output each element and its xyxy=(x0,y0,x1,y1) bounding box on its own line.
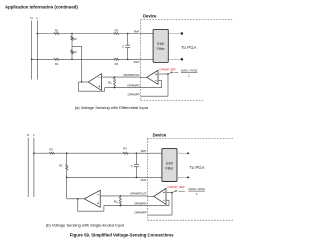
svg-text:(a) Voltage Sensing with Diffe: (a) Voltage Sensing with Differential In… xyxy=(75,105,149,110)
svg-text:L: L xyxy=(36,16,38,20)
svg-text:(b) Voltage Sensing with Singl: (b) Voltage Sensing with Single-Ended In… xyxy=(46,223,125,228)
svg-text:R2: R2 xyxy=(73,50,77,54)
svg-text:N: N xyxy=(27,133,29,137)
svg-text:R1: R1 xyxy=(49,148,53,152)
svg-text:R2: R2 xyxy=(73,37,77,41)
svg-text:L: L xyxy=(33,133,35,137)
svg-text:C: C xyxy=(131,164,133,168)
svg-text:(AVDD + AVSS): (AVDD + AVSS) xyxy=(181,69,197,73)
svg-text:R3: R3 xyxy=(123,147,127,151)
svg-text:R1: R1 xyxy=(55,29,59,33)
svg-text:OPAMP_REF: OPAMP_REF xyxy=(167,185,184,189)
svg-text:Application Information (conti: Application Information (continued) xyxy=(5,4,78,9)
svg-text:RxN: RxN xyxy=(141,178,147,182)
svg-text:OPAMPOUT: OPAMPOUT xyxy=(130,192,147,196)
svg-text:N: N xyxy=(31,16,33,20)
svg-text:RxP: RxP xyxy=(134,29,140,33)
svg-text:2: 2 xyxy=(188,74,190,78)
svg-text:B: B xyxy=(116,202,118,204)
svg-text:To PGA: To PGA xyxy=(181,45,196,50)
svg-text:R2: R2 xyxy=(59,163,63,167)
svg-text:R3: R3 xyxy=(115,29,119,33)
svg-text:Filter: Filter xyxy=(165,166,174,170)
svg-text:Device: Device xyxy=(143,14,157,19)
svg-text:OPAMPN: OPAMPN xyxy=(134,202,146,206)
svg-text:C: C xyxy=(122,45,124,49)
svg-text:RxP: RxP xyxy=(141,149,147,153)
svg-text:OPAMPOUT: OPAMPOUT xyxy=(123,73,140,77)
svg-text:B: B xyxy=(110,83,112,85)
svg-text:OPAMPP: OPAMPP xyxy=(127,93,139,97)
svg-text:R1: R1 xyxy=(55,62,59,66)
svg-text:To PGA: To PGA xyxy=(190,165,205,170)
svg-text:R3: R3 xyxy=(115,62,119,66)
svg-text:EMI: EMI xyxy=(166,161,173,165)
svg-text:OPAMPN: OPAMPN xyxy=(127,83,139,87)
svg-text:EMI: EMI xyxy=(157,42,164,46)
svg-text:OPAMPP: OPAMPP xyxy=(134,210,146,214)
svg-text:2: 2 xyxy=(196,192,198,196)
svg-text:OPAMP_REF: OPAMP_REF xyxy=(160,68,176,72)
svg-text:Filter: Filter xyxy=(157,47,166,51)
svg-text:(AVDD + AVSS): (AVDD + AVSS) xyxy=(188,187,204,191)
svg-text:Figure 59. Simplified Voltage: Figure 59. Simplified Voltage-Sensing Co… xyxy=(70,233,174,238)
svg-text:Device: Device xyxy=(153,132,167,137)
svg-text:RxN: RxN xyxy=(134,60,140,64)
